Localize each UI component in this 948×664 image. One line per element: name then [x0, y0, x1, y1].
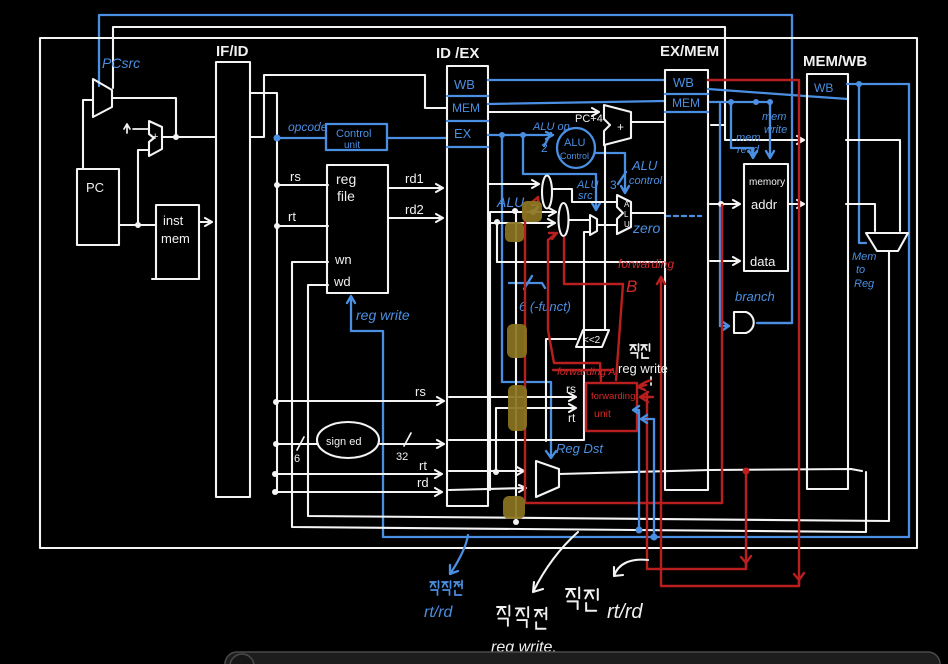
svg-text:Reg: Reg [854, 278, 875, 290]
box MEM [447, 101, 488, 121]
wire control to EX box [387, 137, 447, 139]
svg-text:reg: reg [336, 171, 356, 187]
wire RegDst blue [496, 135, 556, 458]
svg-text:U: U [624, 220, 630, 229]
svg-text:ID /EX: ID /EX [436, 45, 479, 62]
svg-text:MEM/WB: MEM/WB [803, 53, 867, 70]
wire rd1 to mux A [488, 180, 539, 188]
svg-text:6 (-funct): 6 (-funct) [519, 299, 571, 314]
wire mux B out [569, 219, 590, 221]
svg-text:zero: zero [632, 220, 660, 236]
wire zero dashed [632, 216, 701, 236]
svg-text:+: + [152, 131, 158, 143]
box EX [447, 126, 488, 147]
unit sign extend [276, 422, 444, 465]
wire mem data to wb mux [846, 140, 900, 231]
red arrows into forwarding unit [638, 380, 651, 390]
svg-text:opcode: opcode [288, 120, 328, 134]
wire instruction bus [250, 93, 280, 495]
svg-text:wn: wn [334, 252, 352, 267]
svg-text:memory: memory [749, 177, 785, 188]
wire rd to RegDst mux [449, 485, 526, 492]
svg-text:to: to [856, 264, 865, 276]
svg-text:IF/ID: IF/ID [216, 43, 249, 60]
svg-text:rs: rs [415, 384, 426, 399]
svg-text:rs: rs [290, 169, 301, 184]
label forwarding A struck [553, 366, 616, 378]
svg-text:Mem: Mem [852, 251, 876, 263]
svg-text:B: B [626, 277, 637, 296]
svg-text:rt: rt [568, 411, 576, 425]
register PC [77, 169, 119, 245]
adder +4 [124, 121, 162, 156]
unit Control [326, 124, 387, 151]
svg-text:rt/rd: rt/rd [424, 604, 454, 621]
wire MEM control fanout [710, 99, 787, 158]
wire PC out [119, 150, 156, 228]
svg-text:data: data [750, 254, 776, 269]
wire alu result to wb mux [846, 204, 875, 231]
svg-text:unit: unit [594, 408, 611, 420]
svg-text:forwarding A: forwarding A [557, 366, 616, 378]
svg-text:ALU: ALU [564, 137, 585, 149]
wire mux to PC [83, 100, 93, 169]
svg-text:forwarding: forwarding [591, 391, 635, 402]
wire adder out to IF/ID and PCsrc mux [113, 98, 216, 140]
wire ALUsrc blue [523, 135, 600, 210]
svg-text:sign ed: sign ed [326, 436, 361, 448]
svg-text:2: 2 [541, 141, 548, 155]
svg-text:addr: addr [751, 197, 778, 212]
wire wb-data fwd to mux A [512, 204, 540, 525]
wire wn writeback [292, 262, 866, 532]
wire imm to ALUsrc mux [449, 232, 590, 440]
label straight reg write [618, 344, 668, 385]
register EX/MEM [665, 70, 708, 490]
svg-text:MEM: MEM [452, 101, 480, 115]
svg-text:reg write: reg write [356, 307, 410, 323]
wire mem out [788, 200, 804, 208]
wire forwarding path A red [525, 197, 722, 503]
svg-text:EX: EX [454, 126, 472, 141]
svg-text:<<2: <<2 [583, 335, 601, 346]
unit branch adder [575, 105, 631, 145]
box MEM [665, 96, 708, 112]
unit forwarding [586, 383, 637, 431]
wire ALU control out [595, 153, 663, 193]
wire mux A out to ALU [552, 189, 617, 202]
mux ALUsrc [590, 215, 597, 235]
wire rs lower [276, 384, 444, 405]
svg-text:rd2: rd2 [405, 202, 424, 217]
svg-text:forwarding: forwarding [618, 257, 674, 271]
wire inst mem to IF/ID [199, 218, 212, 226]
wire fwd B red [564, 238, 623, 380]
svg-text:Control: Control [336, 128, 371, 140]
wire rd1 [388, 171, 443, 192]
wire MEM bus blue [488, 101, 665, 104]
svg-text:EX/MEM: EX/MEM [660, 43, 719, 60]
register inst mem [152, 205, 199, 279]
svg-text:read: read [737, 144, 760, 156]
unit ALU control [557, 128, 595, 168]
wire EX control blue [488, 121, 570, 155]
svg-text:A: A [624, 200, 630, 209]
svg-text:rd: rd [417, 475, 429, 490]
svg-text:PC: PC [86, 180, 104, 195]
unit ALU [617, 195, 631, 234]
olive highlights [503, 201, 542, 519]
register ID/EX [447, 66, 488, 506]
wire reg write blue [347, 296, 410, 537]
wire fwd blue selects down to reg write bus [633, 406, 658, 541]
svg-text:mem: mem [161, 231, 190, 246]
mux RegDst [536, 461, 559, 497]
wire branch target white top [113, 27, 804, 144]
wire PC+4 into adder [488, 108, 599, 116]
box WB [665, 75, 708, 94]
svg-text:file: file [337, 188, 355, 204]
svg-text:write: write [764, 124, 787, 136]
video bar [225, 652, 940, 664]
svg-text:unit: unit [344, 140, 360, 151]
svg-text:rt/rd: rt/rd [607, 601, 643, 623]
wire branch control [719, 104, 721, 326]
register MEM/WB [807, 74, 848, 489]
svg-text:32: 32 [396, 451, 408, 463]
svg-text:ALU: ALU [631, 158, 658, 173]
wire IF/ID to ID/EX top bus [250, 75, 447, 137]
svg-text:control: control [629, 175, 663, 187]
svg-text:6: 6 [294, 453, 300, 465]
wire fwd mux B control red [548, 233, 601, 381]
wire adder out to EX/MEM [631, 121, 665, 123]
svg-text:reg write: reg write [618, 361, 668, 376]
wire rt to forwarding [496, 404, 576, 472]
wire rd2 to mux B in2 [488, 219, 555, 475]
wire RegDst out rt/rd [559, 468, 862, 475]
wire rd2 [388, 202, 443, 222]
wire store data [497, 261, 665, 263]
svg-text:inst: inst [163, 213, 184, 228]
svg-text:Reg Dst: Reg Dst [556, 441, 604, 456]
wire WB blue EX/MEM to MEM/WB [708, 89, 848, 99]
mux mem-to-reg [866, 233, 908, 251]
svg-text:3: 3 [610, 178, 617, 192]
wire rd lower [275, 475, 442, 496]
svg-text:Control: Control [560, 151, 589, 161]
svg-text:rt: rt [288, 209, 296, 224]
register IF/ID [216, 62, 250, 497]
mux PCsrc [93, 79, 112, 117]
label forwarding B [618, 257, 674, 296]
wire opcode to control [274, 120, 328, 142]
wire rt lower [275, 458, 442, 478]
svg-text:rs: rs [566, 382, 576, 396]
wire branch-taken blue feedback top [99, 15, 792, 323]
svg-text:rt: rt [419, 458, 427, 473]
node outer border [40, 38, 917, 548]
svg-text:MEM: MEM [672, 96, 700, 110]
wire rs to regfile [277, 169, 328, 185]
wire forwarding B annotation arrow red [657, 277, 665, 586]
svg-text:src: src [578, 190, 593, 202]
svg-text:L: L [624, 210, 629, 219]
wire to mux B in1 [490, 208, 556, 216]
wire addr [710, 200, 740, 208]
register reg file [327, 165, 388, 293]
wire forwarding path dest red [647, 471, 746, 569]
wire reg write from WB [383, 81, 909, 537]
wire AND out [757, 322, 792, 324]
bottom annotations [424, 535, 468, 621]
svg-text:PCsrc: PCsrc [102, 55, 140, 71]
wire rt to RegDst mux [449, 467, 524, 475]
svg-text:PC+4: PC+4 [575, 113, 603, 125]
register memory [744, 164, 788, 271]
svg-text:ALU: ALU [496, 194, 525, 210]
svg-text:WB: WB [673, 75, 694, 90]
wire data [710, 257, 740, 265]
wire WB bus blue ID/EX to EX/MEM [488, 79, 665, 81]
svg-text:WB: WB [814, 81, 833, 95]
mux A [542, 176, 552, 209]
unit shift left 2 [546, 145, 609, 441]
svg-text:mem: mem [762, 111, 786, 123]
mux B [559, 203, 569, 236]
wire rs to forwarding [449, 382, 576, 401]
gate AND [734, 312, 754, 333]
wire ALUsrc out [597, 224, 617, 226]
svg-text:branch: branch [735, 289, 775, 304]
svg-text:mem: mem [736, 132, 760, 144]
box WB [447, 77, 488, 96]
wire ALU out [632, 212, 665, 214]
svg-text:rd1: rd1 [405, 171, 424, 186]
svg-text:+: + [617, 120, 624, 134]
svg-text:WB: WB [454, 77, 475, 92]
wire forwarding path EXMEM red [661, 80, 799, 586]
svg-text:wd: wd [333, 274, 351, 289]
wire funct annotation blue [509, 276, 571, 314]
wire rt to regfile [277, 209, 328, 226]
wire wd writeback [308, 252, 889, 521]
